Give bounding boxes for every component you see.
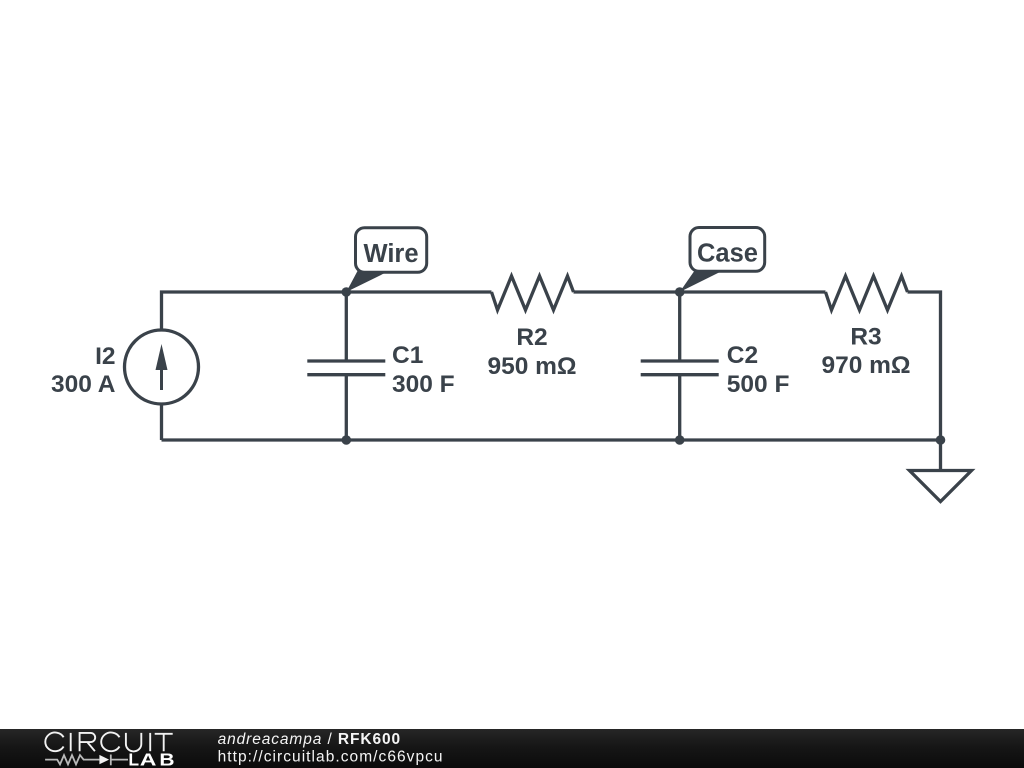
junction node dots bbox=[342, 287, 946, 445]
wire: top-right corner down to bottom rail bbox=[908, 292, 941, 440]
wire: top-left corner segment bbox=[162, 292, 347, 330]
current source I2 circle bbox=[125, 330, 199, 404]
svg-text:300 A: 300 A bbox=[51, 371, 116, 398]
capacitor C1 top lead bbox=[345, 292, 348, 361]
svg-text:Case: Case bbox=[697, 240, 758, 268]
wire: ground stub bbox=[939, 440, 942, 471]
wire: bottom rail bbox=[162, 438, 941, 441]
svg-text:A: A bbox=[140, 750, 157, 768]
node label Wire box bbox=[356, 228, 427, 273]
label C2 value bbox=[727, 342, 790, 398]
capacitor C2 plates bbox=[641, 361, 719, 375]
resistor R2 zigzag bbox=[492, 276, 574, 310]
label R3 value bbox=[821, 324, 910, 380]
svg-text:500 F: 500 F bbox=[727, 371, 790, 398]
node label Case callout pointer bbox=[680, 271, 722, 292]
svg-text:R3: R3 bbox=[850, 324, 881, 351]
CircuitLab logo CIRCUIT lettering bbox=[45, 732, 172, 751]
svg-text:B: B bbox=[159, 751, 174, 768]
svg-text:300 F: 300 F bbox=[392, 371, 455, 398]
svg-text:C2: C2 bbox=[727, 342, 758, 369]
wire: left vertical below I2 bbox=[160, 404, 163, 440]
node label Case box bbox=[690, 228, 765, 272]
svg-text:950 mΩ: 950 mΩ bbox=[487, 353, 576, 380]
resistor R3 zigzag bbox=[826, 276, 908, 310]
wire: top between Case node and R3 bbox=[680, 290, 826, 293]
node label Wire callout pointer bbox=[346, 271, 389, 292]
capacitor C1 plates bbox=[307, 361, 385, 375]
wire: top between Wire node and R2 bbox=[346, 290, 491, 293]
footer bar bbox=[0, 729, 1024, 768]
svg-text:http://circuitlab.com/c66vpcu: http://circuitlab.com/c66vpcu bbox=[218, 749, 444, 766]
wire: top between R2 and Case node bbox=[574, 290, 680, 293]
svg-text:Wire: Wire bbox=[363, 240, 418, 268]
label R2 value bbox=[487, 324, 576, 380]
CircuitLab logo diode triangle bbox=[99, 755, 109, 764]
svg-text:I2: I2 bbox=[95, 343, 115, 370]
current source I2 arrow bbox=[156, 344, 168, 390]
capacitor C2 bottom lead bbox=[678, 375, 681, 440]
svg-text:L: L bbox=[128, 749, 139, 768]
label I2 value bbox=[51, 343, 116, 398]
CircuitLab logo LAB text bbox=[128, 749, 174, 768]
capacitor C2 top lead bbox=[678, 292, 681, 361]
svg-text:R2: R2 bbox=[516, 324, 547, 351]
ground symbol triangle bbox=[910, 471, 972, 502]
svg-text:andreacampa / RFK600: andreacampa / RFK600 bbox=[218, 731, 401, 748]
svg-text:970 mΩ: 970 mΩ bbox=[821, 352, 910, 379]
capacitor C1 bottom lead bbox=[345, 375, 348, 440]
CircuitLab logo resistor-diode wire bbox=[45, 755, 128, 766]
label C1 value bbox=[392, 342, 455, 398]
svg-text:C1: C1 bbox=[392, 342, 423, 369]
